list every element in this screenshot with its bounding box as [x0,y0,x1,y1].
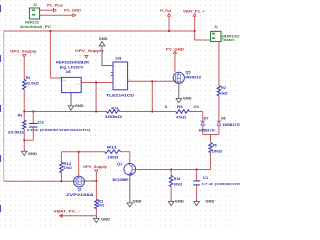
svg-text:GND: GND [75,104,85,108]
svg-text:10.0kΩ: 10.0kΩ [8,131,24,135]
svg-text:BC239BP: BC239BP [113,178,130,182]
svg-text:IRF9010: IRF9010 [185,76,201,80]
svg-text:OPV_Supply: OPV_Supply [75,49,105,53]
svg-text:HDR1X2: HDR1X2 [25,21,39,25]
svg-text:8: 8 [165,105,168,109]
svg-text:C1: C1 [203,176,209,180]
svg-text:24: 24 [193,105,199,109]
svg-text:GND: GND [183,97,193,101]
svg-text:100Ω: 100Ω [107,156,119,160]
svg-text:4: 4 [115,87,116,89]
svg-text:Anschluss_PC: Anschluss_PC [20,25,52,29]
svg-text:22.0kΩ: 22.0kΩ [26,82,39,86]
svg-text:1N5817G: 1N5817G [222,123,240,127]
svg-text:GND: GND [101,218,111,222]
svg-text:R15: R15 [98,200,103,204]
svg-text:GND: GND [28,152,38,156]
svg-text:REF3333AIDBZR: REF3333AIDBZR [56,60,90,64]
svg-text:1N5817G: 1N5817G [198,129,215,133]
svg-text:47kΩ: 47kΩ [174,182,182,186]
svg-text:ZVP2106A: ZVP2106A [66,193,94,197]
svg-text:J1: J1 [214,25,218,29]
svg-text:Q5: Q5 [185,70,190,74]
svg-text:GND: GND [99,37,109,41]
svg-text:R16: R16 [174,177,181,181]
svg-text:R4: R4 [177,105,183,109]
svg-text:47kΩ: 47kΩ [176,116,186,120]
svg-text:4.7nF [C0603C472K1RACTU]: 4.7nF [C0603C472K1RACTU] [26,128,90,132]
svg-text:OPV_Supply: OPV_Supply [83,165,108,169]
svg-text:7: 7 [115,67,116,69]
svg-text:VBAT_PC_+: VBAT_PC_+ [183,9,205,13]
svg-text:Eig. LF33CV: Eig. LF33CV [60,66,85,70]
svg-text:R2: R2 [221,86,226,90]
svg-text:470Ω: 470Ω [98,204,104,208]
svg-text:R3: R3 [26,76,31,80]
svg-text:U6: U6 [66,70,71,74]
svg-text:J4: J4 [33,3,37,7]
svg-text:R5: R5 [213,144,217,148]
svg-text:47kΩ: 47kΩ [63,166,72,170]
svg-text:VBAT_PC_-: VBAT_PC_- [53,209,80,213]
svg-text:3: 3 [109,74,110,76]
svg-text:GND: GND [175,200,185,204]
svg-text:100kΩ: 100kΩ [105,115,123,119]
svg-text:D6: D6 [221,116,225,120]
svg-text:Q1: Q1 [117,162,122,166]
svg-text:PC_Plus: PC_Plus [160,9,171,13]
svg-text:2: 2 [109,77,110,79]
svg-text:D7: D7 [204,116,209,120]
svg-text:TLE2141CD: TLE2141CD [106,94,135,98]
svg-text:PC_Plus: PC_Plus [47,4,63,8]
svg-text:Taster: Taster [222,38,235,42]
svg-text:C2: C2 [38,121,44,125]
svg-text:R1: R1 [18,114,23,118]
svg-text:R12: R12 [63,162,71,166]
svg-text:OPV_Supply: OPV_Supply [10,50,38,54]
svg-text:100Ω: 100Ω [212,149,223,153]
svg-text:6: 6 [129,79,130,81]
svg-text:U3: U3 [115,57,121,61]
svg-text:GND: GND [133,200,143,204]
svg-text:PC_GND: PC_GND [64,9,81,13]
svg-text:Q3: Q3 [78,188,82,192]
svg-text:R14: R14 [111,106,118,110]
svg-text:4.7 nF [C0603C472K1RACTU]: 4.7 nF [C0603C472K1RACTU] [201,182,240,186]
svg-text:GND: GND [205,199,215,203]
svg-text:1kΩ: 1kΩ [221,92,227,96]
svg-text:PC_GND: PC_GND [166,47,185,51]
svg-text:R11: R11 [107,145,117,149]
